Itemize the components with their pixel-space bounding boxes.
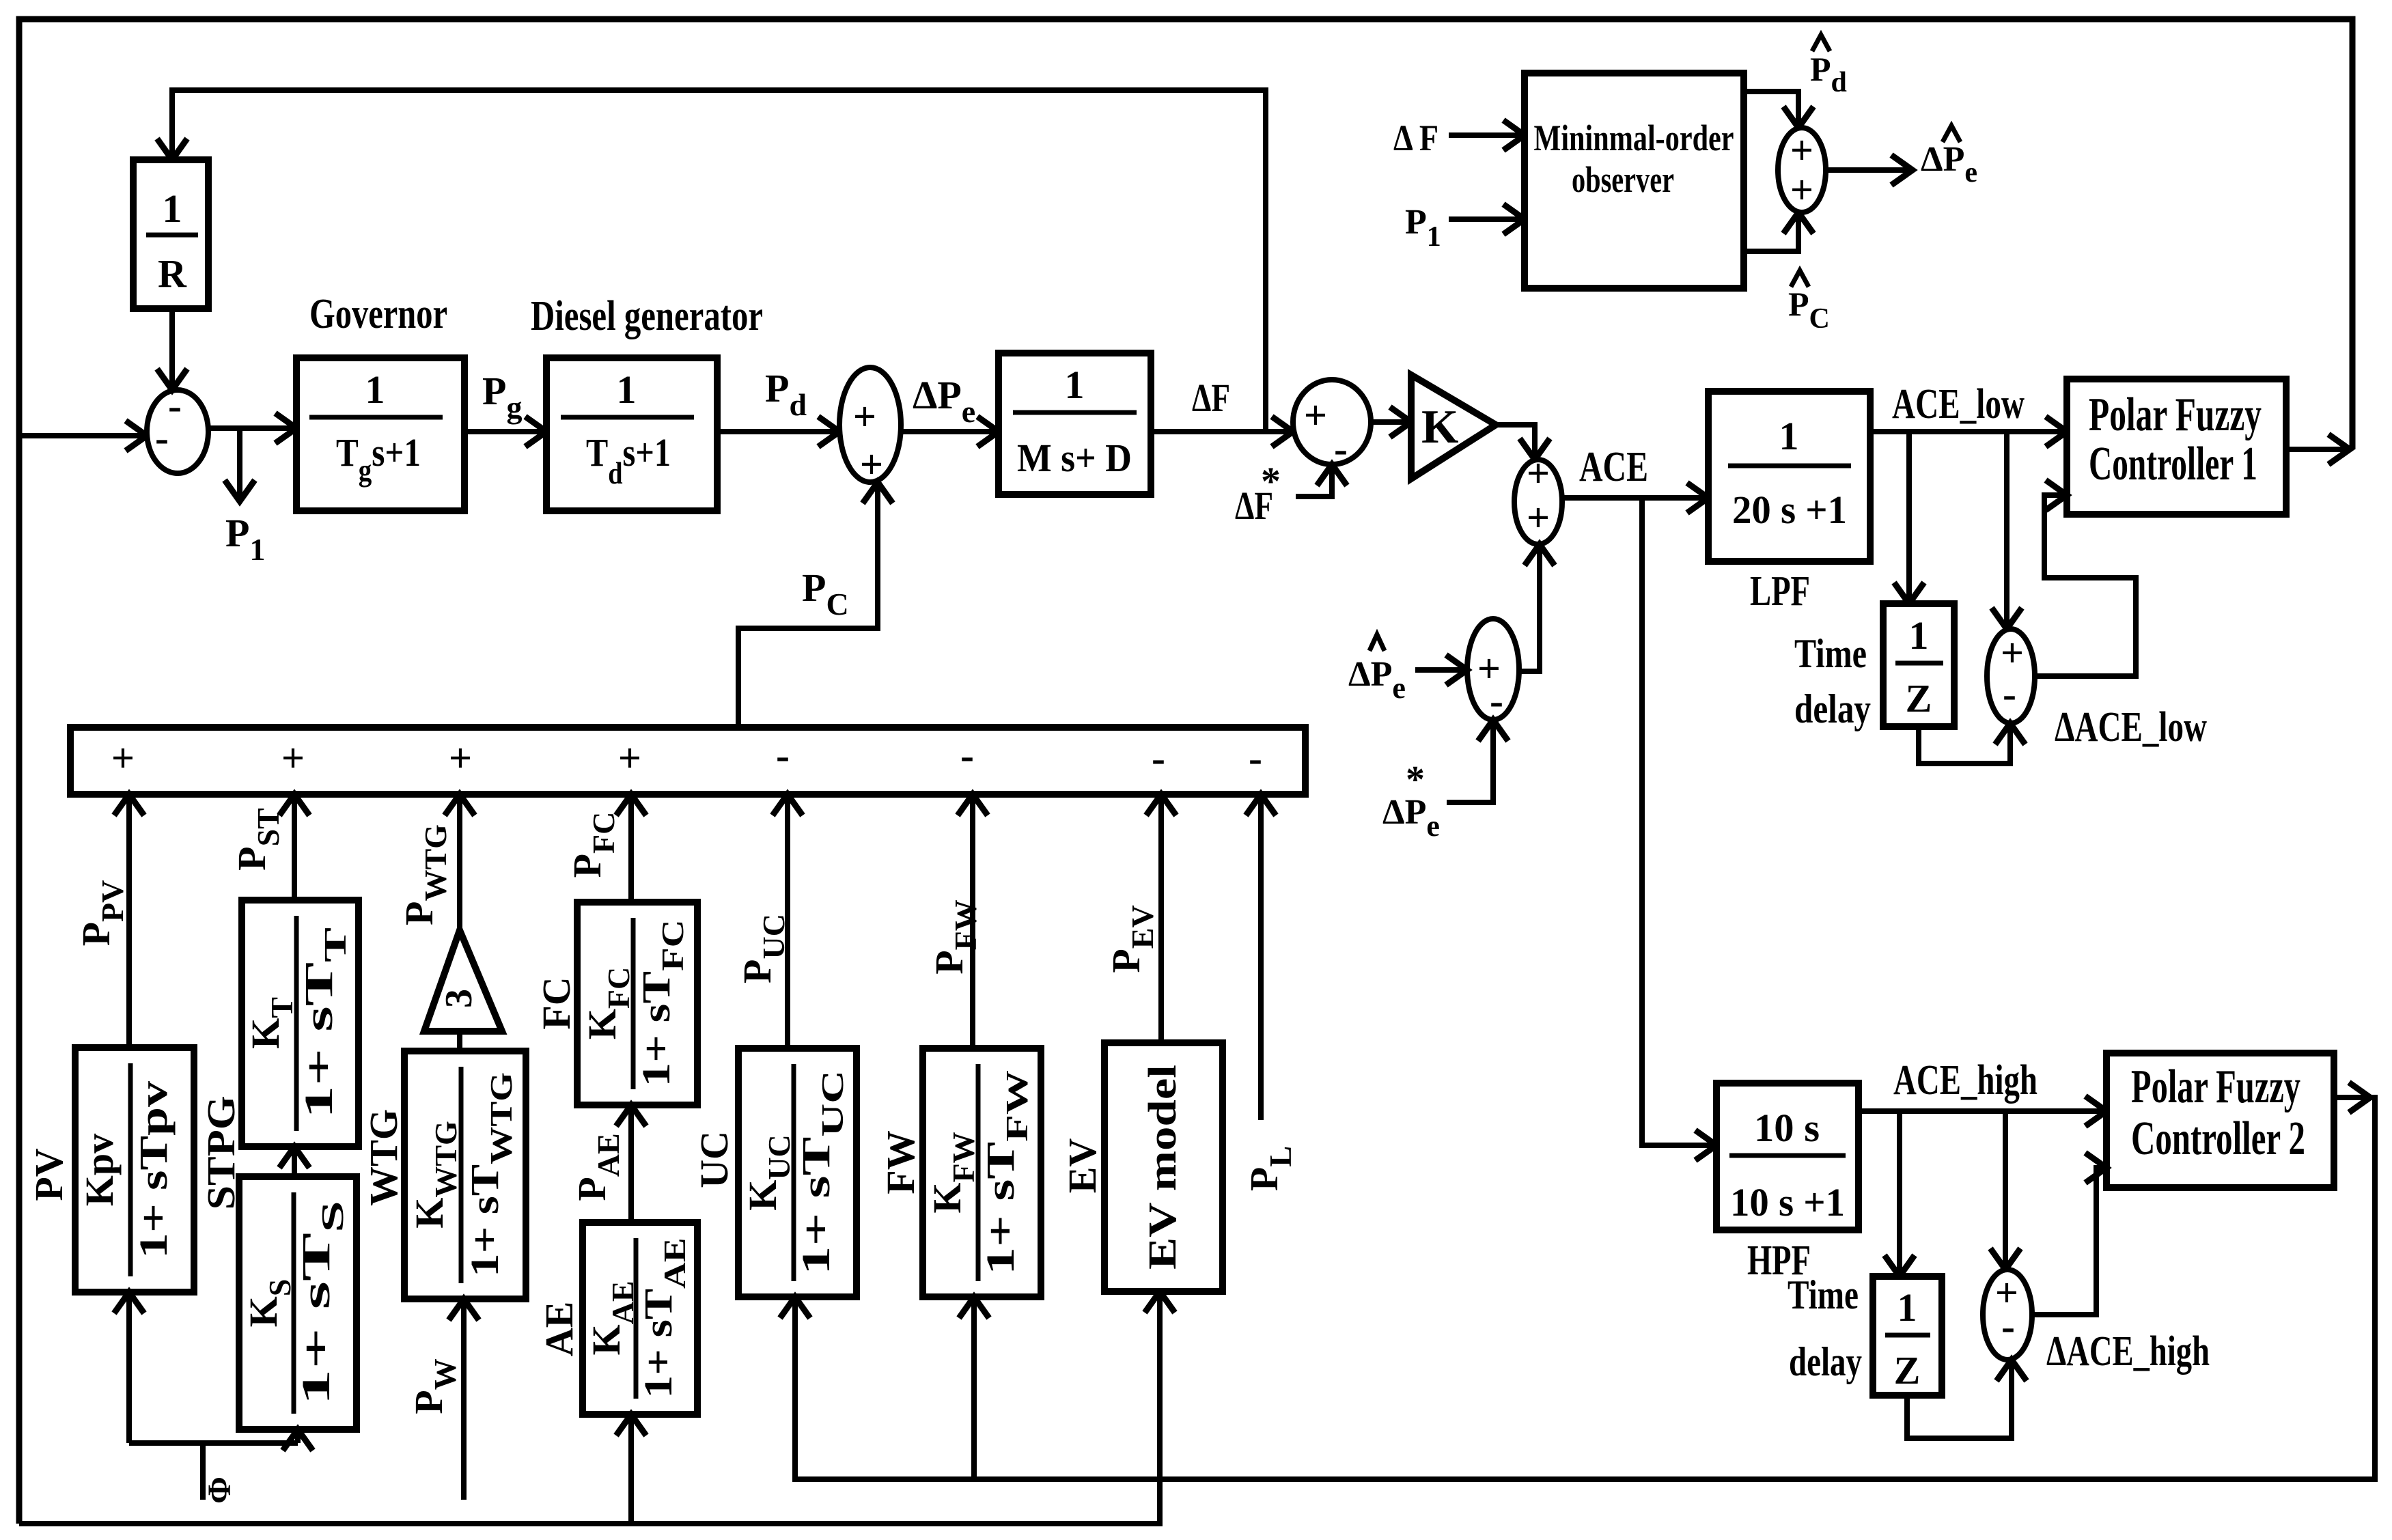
svg-text:-: - [2003, 671, 2016, 716]
svg-text:FW: FW [878, 1130, 923, 1194]
svg-text:FC: FC [534, 977, 579, 1029]
svg-text:Z: Z [1906, 676, 1932, 720]
block 1/R [133, 160, 208, 309]
svg-text:Z: Z [1894, 1348, 1921, 1392]
svg-text:1: 1 [365, 367, 385, 412]
svg-text:delay: delay [1789, 1339, 1862, 1384]
svg-text:Time: Time [1794, 631, 1867, 676]
wire ACE_high tap down to time delay 2 [1897, 1111, 1902, 1276]
wire Diesel to S2 [717, 429, 839, 434]
wire KS to KT [292, 1147, 297, 1177]
summer S5 [1467, 619, 1519, 720]
wire AE to FC [628, 1105, 634, 1222]
svg-text:1: 1 [1065, 363, 1085, 407]
wire bottom feed to EV model input [19, 1291, 1160, 1524]
wire S4 to LPF [1561, 495, 1708, 501]
block LPF 1/(20s+1) [1708, 391, 1870, 561]
wire phi horizontal [129, 1440, 298, 1446]
wire Delta-F feedback down to 1/R [172, 90, 1266, 432]
wire PL input [1258, 794, 1264, 1120]
wire PW input [461, 1299, 467, 1500]
wire ACE_low tap down to S6 [2004, 432, 2009, 629]
wire S3 to gain K [1371, 419, 1411, 425]
wire 1/R down to S1 [169, 309, 175, 390]
wire P1 tap stub [237, 428, 242, 501]
svg-text:Δ F: Δ F [1393, 117, 1438, 158]
wire phi up into PV [126, 1292, 132, 1443]
svg-text:R: R [158, 251, 187, 296]
block KT/(1+sTT) [242, 900, 359, 1147]
svg-text:*: * [1406, 759, 1425, 801]
block PFC1 Polar Fuzzy Controller 1 [2067, 379, 2286, 514]
svg-text:Governor: Governor [309, 291, 447, 337]
svg-text:1+ sTpv: 1+ sTpv [131, 1081, 176, 1259]
wire UC to summing bar [785, 794, 790, 1048]
svg-text:-: - [1152, 736, 1165, 781]
svg-text:ΔF: ΔF [1192, 376, 1230, 420]
svg-text:EV: EV [1060, 1138, 1104, 1194]
wire S2 to Ms+D block [901, 429, 999, 434]
svg-text:+: + [860, 442, 883, 487]
block PFC2 Polar Fuzzy Controller 2 [2106, 1053, 2334, 1188]
svg-text:10 s +1: 10 s +1 [1730, 1180, 1845, 1224]
svg-text:+: + [281, 736, 305, 781]
summer S1 [147, 390, 208, 473]
svg-text:Kpv: Kpv [77, 1134, 122, 1206]
block KWTG/(1+sTWTG) [404, 1051, 526, 1299]
svg-text:Φ: Φ [201, 1476, 238, 1504]
svg-text:ACE: ACE [1579, 444, 1648, 490]
wire K to S4 [1496, 425, 1535, 460]
svg-text:-: - [960, 733, 974, 778]
svg-text:-: - [155, 415, 169, 460]
wire Delta-F-star into S3 [1296, 464, 1332, 496]
svg-text:ACE_low: ACE_low [1892, 381, 2025, 428]
svg-text:M s+ D: M s+ D [1017, 436, 1132, 480]
svg-text:+: + [1790, 167, 1813, 212]
svg-text:delay: delay [1794, 686, 1871, 731]
summer S8 [1983, 1270, 2032, 1360]
wire phi up into KS [295, 1429, 301, 1443]
block 1/(Ms+D) [999, 353, 1151, 494]
block KFC/(1+sTFC) [577, 902, 697, 1105]
wire AE input from bottom feed [628, 1414, 634, 1524]
svg-text:-: - [2001, 1304, 2015, 1349]
block time delay 1/Z [1883, 604, 1954, 727]
wire S6 to PFC1 second input [2035, 495, 2136, 676]
wire Delta-Pe-star into S5 [1447, 720, 1493, 802]
svg-text:UC: UC [692, 1131, 736, 1188]
wire Governor to Diesel [464, 429, 546, 434]
wire S7 output Delta-Pe-hat [1826, 167, 1913, 173]
svg-text:LPF: LPF [1750, 568, 1810, 615]
wire gain3 to summing bar [457, 794, 462, 930]
svg-text:Polar Fuzzy: Polar Fuzzy [2131, 1061, 2300, 1113]
wire phi stub [200, 1443, 206, 1500]
svg-text:Time: Time [1788, 1272, 1859, 1317]
summing bar [70, 727, 1305, 794]
svg-text:+: + [449, 736, 472, 781]
svg-text:1: 1 [1909, 613, 1929, 658]
svg-text:K: K [1421, 401, 1458, 453]
wire FW to summing bar [970, 794, 975, 1048]
block Governor 1/(Tgs+1) [296, 358, 464, 511]
block KS/(1+sTS) [239, 1177, 357, 1429]
wire PC from summing bar up to S2 [738, 482, 878, 727]
wire PFC1 output into right border [2286, 447, 2350, 452]
svg-text:Polar Fuzzy: Polar Fuzzy [2089, 389, 2262, 441]
wire PFC2 output arrow [2334, 1095, 2370, 1100]
svg-text:1: 1 [163, 186, 182, 231]
gain K triangle [1411, 375, 1496, 479]
summer S6 [1987, 629, 2035, 723]
block PV Kpv/(1+sTpv) [75, 1048, 194, 1292]
wire 1/Z2 to S8 [1907, 1360, 2012, 1438]
svg-text:-: - [1249, 736, 1262, 781]
wire left border into summer S1 [19, 433, 147, 438]
svg-text:+: + [618, 736, 641, 781]
wire ACE_low tap down to time delay 1/Z [1906, 432, 1912, 604]
summer S2 [839, 367, 901, 482]
wire S8 to PFC2 second input [2032, 1168, 2106, 1315]
wire observer bottom output to S7 [1744, 212, 1798, 251]
wire Delta-Pe-hat into S5 [1415, 667, 1467, 673]
svg-text:1: 1 [1897, 1285, 1917, 1330]
summer S7 [1778, 128, 1826, 212]
wire ACE_high tap down to S8 [2003, 1111, 2008, 1270]
wire Delta-F into observer [1449, 132, 1525, 138]
wire HPF to PFC2 [1859, 1108, 2106, 1114]
svg-text:-: - [1490, 678, 1503, 723]
wire Ms+D to S3 [1151, 429, 1293, 434]
svg-text:ΔACE_high: ΔACE_high [2046, 1328, 2210, 1375]
wire PFC2 output down and across to UC input [795, 1097, 2375, 1479]
svg-text:+: + [853, 394, 876, 439]
svg-text:20 s +1: 20 s +1 [1732, 488, 1847, 532]
wire ACE tap down to HPF [1642, 498, 1716, 1145]
svg-text:-: - [1334, 426, 1348, 471]
block Mininmal-order observer [1525, 73, 1744, 288]
wire 1/Z to S6 [1919, 723, 2010, 764]
svg-text:Diesel generator: Diesel generator [531, 293, 763, 339]
block HPF 10s/(10s+1) [1716, 1083, 1859, 1230]
block EV model [1104, 1043, 1223, 1291]
wire FC to summing bar [628, 794, 634, 902]
wire KWTG to gain3 [457, 1031, 462, 1051]
svg-text:+: + [1304, 393, 1327, 438]
wire LPF to PFC1 [1870, 429, 2067, 434]
svg-text:WTG: WTG [361, 1109, 406, 1206]
block Diesel generator 1/(Tds+1) [546, 358, 717, 511]
svg-text:1: 1 [1779, 414, 1799, 458]
svg-text:3: 3 [438, 989, 480, 1008]
svg-text:10 s: 10 s [1754, 1106, 1820, 1150]
wire observer top output to S7 [1744, 92, 1798, 128]
svg-text:*: * [1261, 459, 1281, 503]
svg-text:ACE_high: ACE_high [1893, 1057, 2038, 1104]
svg-text:EV model: EV model [1140, 1065, 1184, 1270]
summer S4 [1514, 460, 1562, 544]
wire PV to summing bar [126, 794, 132, 1048]
wire FW input tap from PFC2 line [971, 1297, 977, 1479]
svg-text:Mininmal-order: Mininmal-order [1534, 117, 1734, 158]
gain 3 triangle [424, 930, 502, 1031]
svg-text:+: + [1527, 495, 1550, 540]
svg-text:Controller 2: Controller 2 [2131, 1112, 2305, 1165]
wire KT to summing bar [292, 794, 297, 900]
block KUC/(1+sTUC) [738, 1048, 857, 1297]
block time delay 2 1/Z [1873, 1276, 1942, 1395]
block KFW/(1+sTFW) [923, 1048, 1041, 1297]
svg-text:+: + [1527, 451, 1550, 496]
svg-text:PV: PV [27, 1148, 71, 1201]
block KAE/(1+sTAE) [583, 1222, 697, 1414]
svg-text:+: + [1790, 128, 1813, 173]
svg-text:Controller 1: Controller 1 [2089, 438, 2257, 490]
wire P1 into observer [1449, 216, 1525, 222]
summer S3 [1293, 380, 1371, 464]
svg-text:ΔACE_low: ΔACE_low [2055, 704, 2207, 751]
svg-text:+: + [2001, 630, 2024, 675]
svg-text:AE: AE [537, 1302, 581, 1357]
svg-text:+: + [111, 736, 135, 781]
svg-text:observer: observer [1572, 159, 1674, 200]
wire EV to summing bar [1158, 794, 1164, 1043]
wire S1 output to Governor [208, 425, 296, 431]
svg-text:-: - [776, 733, 790, 778]
wire S5 output up into S4 [1519, 544, 1540, 671]
svg-text:1: 1 [617, 367, 637, 412]
